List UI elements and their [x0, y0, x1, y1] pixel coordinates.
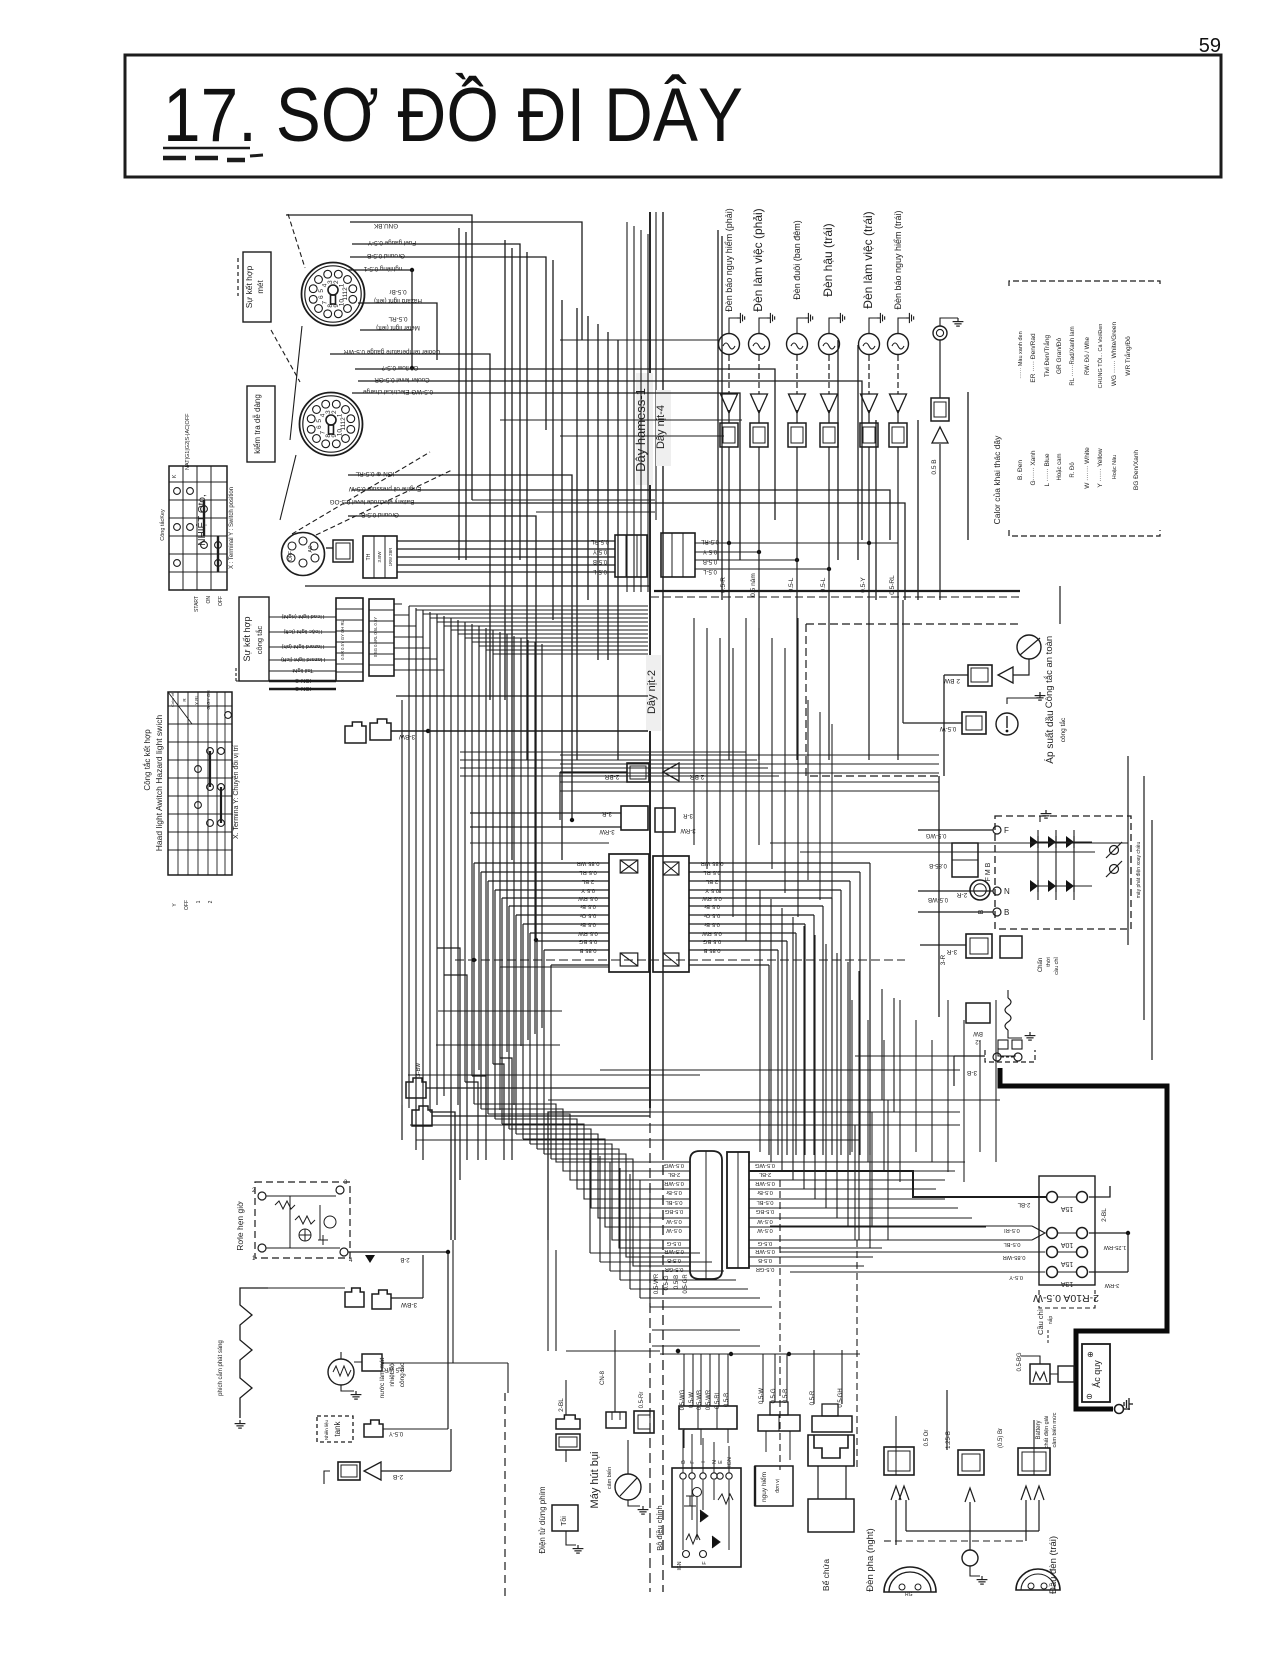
harness label Day harness-1: [633, 373, 653, 485]
svg-text:1.25-RW: 1.25-RW: [1103, 1244, 1126, 1250]
svg-text:công tắc: công tắc: [397, 1362, 406, 1387]
vertical drop wires top bundle: [459, 228, 968, 860]
lower junction block left: [664, 1151, 722, 1279]
ignition switch table NHIET Oto: [159, 413, 235, 612]
svg-text:Head light (right): Head light (right): [282, 613, 325, 619]
svg-text:mét: mét: [256, 280, 265, 294]
svg-text:0.5-GR: 0.5-GR: [683, 1274, 689, 1294]
wire labels before harness conn: [590, 538, 609, 574]
svg-text:Tail light: Tail light: [292, 667, 313, 673]
svg-text:3-RW: 3-RW: [680, 827, 696, 833]
svg-text:Tivi Đen/Trắng: Tivi Đen/Trắng: [1042, 335, 1051, 378]
svg-text:······ Màu xanh đen: ······ Màu xanh đen: [1018, 331, 1024, 378]
extra top bundle verticals: [627, 222, 648, 592]
svg-text:ER ····· Đen/Rad: ER ····· Đen/Rad: [1030, 333, 1037, 383]
svg-text:R. Đỏ: R. Đỏ: [1069, 462, 1076, 478]
title block frame: [125, 55, 1221, 177]
svg-text:6: 6: [316, 425, 323, 429]
svg-text:GR Gran/Đỏ: GR Gran/Đỏ: [1055, 338, 1063, 375]
2-B connector arrow: [324, 1462, 451, 1484]
svg-text:3-Bw: 3-Bw: [416, 1062, 422, 1076]
svg-text:Chấn: Chấn: [1038, 958, 1044, 972]
svg-text:thời: thời: [1046, 957, 1052, 966]
svg-text:Hoặc light (left): Hoặc light (left): [283, 628, 322, 634]
bundle elbows: [402, 948, 512, 1240]
svg-text:0.5-Br: 0.5-Br: [757, 1189, 773, 1195]
battery connector dashed: [954, 1050, 1035, 1086]
gauge wire labels: [330, 222, 441, 518]
svg-text:nắp: nắp: [1047, 1316, 1054, 1325]
svg-text:E: E: [718, 1460, 724, 1464]
svg-text:Bể chứa: Bể chứa: [821, 1559, 831, 1591]
lamp node 7: [931, 318, 963, 600]
svg-text:CHUNG TÔI... Cá Voi/Đen: CHUNG TÔI... Cá Voi/Đen: [1097, 324, 1104, 389]
svg-text:0.5-G: 0.5-G: [666, 1240, 681, 1246]
svg-text:1: 1: [196, 900, 202, 903]
wire oil flow: [355, 369, 775, 520]
svg-text:0.5-G: 0.5-G: [664, 1275, 670, 1290]
svg-text:2: 2: [208, 900, 214, 903]
svg-text:0.5 Or: 0.5 Or: [924, 1430, 930, 1447]
svg-text:0.5-Y: 0.5-Y: [703, 548, 717, 554]
combo switch connector table A: [336, 598, 363, 681]
svg-text:15A: 15A: [1060, 1205, 1073, 1212]
headlight arrows: [891, 1486, 1044, 1502]
svg-text:F: F: [1004, 826, 1009, 835]
wire harness separator 2b: [655, 212, 657, 520]
svg-text:X. Termina Y: Chuyển đổi vị tr: X. Termina Y: Chuyển đổi vị trí: [232, 745, 240, 839]
svg-text:1RW 2BR: 1RW 2BR: [388, 548, 393, 567]
cascade wires right of junction block: [689, 863, 870, 1155]
svg-text:Công tắc kết hợp: Công tắc kết hợp: [143, 729, 152, 791]
svg-text:0.5-BL: 0.5-BL: [665, 1199, 683, 1205]
svg-text:Calor của khai thác dây: Calor của khai thác dây: [992, 435, 1002, 525]
svg-text:N: N: [1004, 887, 1010, 896]
svg-text:0.5-B: 0.5-B: [674, 1275, 680, 1289]
svg-text:17. SƠ ĐỒ ĐI DÂY: 17. SƠ ĐỒ ĐI DÂY: [163, 73, 743, 158]
svg-text:RW. Đỏ / Whe: RW. Đỏ / Whe: [1084, 336, 1091, 375]
hazard unit box: [755, 1466, 793, 1506]
2-BL connector stack: [556, 1380, 580, 1462]
svg-text:Y RL: Y RL: [194, 695, 199, 705]
svg-text:Đèn đuôi (ban đêm): Đèn đuôi (ban đêm): [792, 220, 802, 300]
svg-text:Đầu đèn (trái): Đầu đèn (trái): [1048, 1536, 1059, 1594]
svg-text:1.25-B: 1.25-B: [946, 1431, 952, 1449]
central harness wire bundle: [402, 606, 542, 1112]
right horizontals upper: [560, 755, 939, 791]
svg-text:0.5G 0.5RL 0.5L 0.5Y: 0.5G 0.5RL 0.5L 0.5Y: [373, 617, 378, 657]
svg-text:0.5-WR: 0.5-WR: [755, 1180, 775, 1186]
bottom small boxes: [0, 0, 1, 1]
svg-text:BW: BW: [973, 1030, 983, 1036]
wire colour legend: [992, 281, 1160, 536]
wire nghieng: [348, 268, 414, 330]
plug connectors 3-Bw mid: [406, 1062, 650, 1126]
svg-text:0.5-WG: 0.5-WG: [755, 1162, 775, 1168]
svg-text:Sự kết hợp: Sự kết hợp: [242, 617, 252, 662]
svg-text:Đèn báo nguy hiểm (phải): Đèn báo nguy hiểm (phải): [724, 208, 734, 312]
svg-text:0.5-B: 0.5-B: [593, 558, 607, 564]
svg-text:2: 2: [331, 410, 338, 414]
combo switch row labels: [269, 613, 336, 691]
svg-text:0.5-BG: 0.5-BG: [664, 1208, 683, 1214]
svg-text:0.5-WG: 0.5-WG: [925, 832, 946, 838]
svg-text:Haad light Awitch Hazard light: Haad light Awitch Hazard light swich: [154, 715, 164, 852]
svg-text:WR Trắng/Đỏ: WR Trắng/Đỏ: [1123, 336, 1132, 376]
svg-text:1: 1: [339, 283, 346, 287]
harness label Day nit-4: [655, 390, 671, 466]
svg-text:Điện tử dừng phím: Điện tử dừng phím: [538, 1486, 547, 1554]
svg-text:Ắc quy: Ắc quy: [1092, 1360, 1102, 1388]
right vertical wires: [903, 586, 1152, 1060]
glow plug zigzag: [217, 1288, 268, 1428]
junction block bottom wire: [500, 967, 609, 1110]
svg-text:2: 2: [333, 280, 340, 284]
svg-text:0.5 B: 0.5 B: [931, 459, 938, 474]
svg-text:2-BL: 2-BL: [1101, 1208, 1108, 1222]
svg-text:2-B: 2-B: [393, 1473, 403, 1480]
tank box: [317, 1416, 353, 1442]
wire harness separator 2: [662, 212, 664, 1592]
svg-text:3-B: 3-B: [967, 1069, 977, 1076]
label box Su ket hop met: [238, 252, 271, 322]
svg-text:OFF: OFF: [184, 900, 190, 910]
svg-text:BG Đen/Xanh: BG Đen/Xanh: [1133, 450, 1140, 490]
svg-text:0.5-BG: 0.5-BG: [755, 1208, 774, 1214]
svg-text:0.5-Rl: 0.5-Rl: [1004, 1227, 1019, 1233]
left bottom vertical wires: [448, 1240, 508, 1600]
svg-text:Rơle hẹn giờ: Rơle hẹn giờ: [235, 1201, 245, 1251]
svg-text:3: 3: [327, 280, 334, 284]
svg-text:12: 12: [342, 287, 349, 295]
svg-text:0.5-L: 0.5-L: [593, 568, 607, 574]
svg-text:2-BL: 2-BL: [667, 1171, 680, 1177]
wire hazard right: [358, 303, 437, 360]
svg-text:2 BW: 2 BW: [943, 677, 960, 684]
svg-text:12: 12: [340, 417, 347, 425]
svg-text:Color of: Color of: [170, 692, 175, 707]
headlight labels: [865, 1528, 1059, 1594]
svg-text:phích cắm phát sáng: phích cắm phát sáng: [217, 1340, 224, 1396]
leader lines to meter coupler: [271, 214, 305, 520]
svg-text:3-R: 3-R: [940, 954, 947, 965]
wire engine oil pressure: [352, 490, 890, 540]
alternator assembly: [985, 810, 1142, 929]
wire labels right of harness conn: [700, 538, 719, 574]
svg-text:0.5-GR: 0.5-GR: [756, 1266, 775, 1272]
timer relay: [252, 1180, 353, 1264]
svg-text:0.5-WR: 0.5-WR: [664, 1180, 684, 1186]
labels under lower block: [654, 1273, 689, 1294]
wire battery electrode: [345, 503, 905, 600]
battery: [1082, 1344, 1110, 1402]
svg-text:0.5-R: 0.5-R: [810, 1390, 816, 1405]
svg-text:Y ······ Yellow: Y ······ Yellow: [1097, 448, 1104, 488]
svg-text:0.5-WR: 0.5-WR: [755, 1248, 775, 1254]
svg-text:0.5-GH: 0.5-GH: [838, 1388, 844, 1407]
wire from combo to harness: [396, 695, 648, 697]
svg-text:0.5-Y: 0.5-Y: [593, 548, 607, 554]
headlight wires: [884, 1390, 1039, 1550]
svg-text:Nhiên liệu: Nhiên liệu: [324, 1419, 329, 1440]
svg-text:X : Terminal Y : Switch posi: X : Terminal Y : Switch position: [229, 487, 235, 569]
svg-text:0.5-W: 0.5-W: [666, 1227, 682, 1233]
lower right horizontals: [600, 1056, 1000, 1240]
svg-text:cảm biến mức: cảm biến mức: [1052, 1412, 1058, 1447]
plug pair 3-BW bottom: [268, 1255, 423, 1309]
svg-text:Cầu chì: Cầu chì: [1036, 1309, 1045, 1335]
svg-text:nguy hiểm: nguy hiểm: [760, 1472, 768, 1502]
headlight connector 2: [958, 1450, 984, 1475]
3-R connector pair lower: [920, 934, 1022, 965]
wires ignition to harness: [397, 541, 615, 572]
bottom connector row A: [679, 1354, 737, 1448]
svg-text:Hoặc Nâu: Hoặc Nâu: [1112, 455, 1118, 479]
svg-text:Đèn hậu (trái): Đèn hậu (trái): [821, 223, 835, 296]
cascade below lower block: [566, 1150, 772, 1353]
svg-text:IGN: IGN: [727, 1457, 733, 1467]
lower junction block right: [727, 1152, 775, 1272]
mid-right mesh wires: [470, 843, 894, 1351]
svg-text:kiểm tra dễ dàng: kiểm tra dễ dàng: [253, 394, 262, 454]
svg-text:⊕: ⊕: [1087, 1350, 1094, 1359]
svg-text:0.5-G: 0.5-G: [771, 1388, 777, 1403]
svg-text:Dây nịt-4: Dây nịt-4: [655, 405, 667, 449]
svg-text:0.5-BG: 0.5-BG: [1017, 1352, 1023, 1371]
svg-text:3-BW: 3-BW: [400, 1301, 417, 1308]
ignition switch coupler: [282, 533, 325, 576]
page number 59: [1199, 35, 1221, 57]
reservoir: [808, 1435, 854, 1591]
svg-text:F M B: F M B: [985, 862, 992, 881]
svg-text:3.BW: 3.BW: [377, 551, 382, 563]
coolant temp switch: [328, 1352, 406, 1399]
svg-text:công tắc: công tắc: [255, 626, 264, 655]
svg-text:0.5-WB: 0.5-WB: [697, 1390, 703, 1410]
svg-text:3-RW: 3-RW: [599, 828, 615, 834]
bottom connector row B: [758, 1354, 800, 1460]
svg-text:IGN: IGN: [677, 1561, 683, 1570]
battery ground thick: [1076, 1352, 1133, 1414]
headlight connector 3: [1018, 1448, 1050, 1475]
svg-text:WG ······ White/Green: WG ······ White/Green: [1111, 321, 1118, 386]
lamp horizontal bus: [305, 586, 1020, 776]
wire fuel gauge: [352, 244, 520, 560]
ignition leader dashes: [292, 452, 452, 535]
relay output wire: [348, 1250, 450, 1263]
connector 2-BR: [560, 763, 704, 820]
svg-text:0.5-Y: 0.5-Y: [1009, 1274, 1023, 1280]
second bundle to lower block: [474, 1104, 690, 1266]
svg-text:0.5-W: 0.5-W: [940, 725, 957, 732]
wire cooler level: [358, 381, 862, 540]
svg-text:13A: 13A: [1060, 1280, 1073, 1287]
svg-text:2-BL: 2-BL: [1017, 1201, 1030, 1207]
svg-text:tank: tank: [333, 1420, 342, 1436]
svg-text:Ground 0.5-B: Ground 0.5-B: [361, 511, 399, 518]
Toi winch box: [538, 1462, 583, 1554]
fuse link: [966, 957, 1060, 1056]
svg-text:0.5-Y: 0.5-Y: [389, 1430, 403, 1436]
headlight centre node: [962, 1550, 987, 1584]
safety switch dashed box: [806, 624, 1020, 776]
svg-text:đơn vị: đơn vị: [775, 1479, 781, 1493]
svg-text:⊖: ⊖: [1086, 1392, 1093, 1401]
fuse box: [1039, 1176, 1095, 1287]
svg-text:nghiêng 0.5-1: nghiêng 0.5-1: [363, 265, 402, 272]
wire separator elbow: [548, 1112, 650, 1240]
harness connector right of separator: [661, 533, 695, 577]
svg-text:B: B: [1004, 908, 1009, 917]
svg-text:Ground 0.5-B: Ground 0.5-B: [367, 252, 405, 259]
bundle top taps: [409, 606, 648, 654]
connector 3-R pair: [470, 806, 696, 834]
safety switch: [943, 635, 1055, 776]
wire IGN: [348, 475, 574, 822]
svg-text:0.5-G: 0.5-G: [757, 1240, 772, 1246]
fuel sender connector: [364, 1420, 448, 1437]
svg-text:Engine oil pressure 0.5-W: Engine oil pressure 0.5-W: [349, 485, 422, 492]
wire meter light: [360, 330, 414, 370]
svg-text:Hazard light (ph): Hazard light (ph): [282, 643, 325, 649]
svg-text:3-R: 3-R: [683, 812, 693, 818]
svg-text:3-RW: 3-RW: [1104, 1282, 1119, 1288]
svg-text:NAT|G1|G2|S-|AC|OFF: NAT|G1|G2|S-|AC|OFF: [185, 413, 191, 470]
svg-text:ON: ON: [206, 596, 212, 604]
battery feed thick wire: [1000, 1068, 1167, 1352]
wires out lower block right: [749, 1162, 965, 1266]
ignition connector small: [326, 540, 353, 562]
svg-text:Tồi: Tồi: [559, 1516, 568, 1526]
svg-text:cảm biến: cảm biến: [607, 1467, 613, 1489]
svg-text:Fuel gauge 0.5-Y: Fuel gauge 0.5-Y: [367, 239, 416, 246]
svg-text:Đèn pha (nght): Đèn pha (nght): [865, 1528, 876, 1591]
svg-text:G······ Xanh: G······ Xanh: [1030, 450, 1037, 485]
timer relay label: [235, 1201, 245, 1251]
svg-text:NHIỆT Oto,: NHIỆT Oto,: [195, 494, 208, 546]
temp switch connector: [354, 1354, 508, 1372]
fuse wires: [749, 1171, 1130, 1288]
0.5-Rr connector: [634, 1392, 654, 1433]
fuse caption: [1036, 1309, 1054, 1345]
B terminal connector: [956, 880, 990, 914]
fuse label 2R10A: [1033, 1290, 1099, 1308]
svg-text:0.5R 0.5Y GY OH RL: 0.5R 0.5Y GY OH RL: [340, 620, 345, 660]
svg-text:0.5-W: 0.5-W: [759, 1388, 765, 1404]
voltage regulator: [655, 1444, 741, 1570]
svg-text:Cooler level 0.5-GR: Cooler level 0.5-GR: [374, 376, 430, 383]
svg-text:Đèn làm việc (trái): Đèn làm việc (trái): [861, 211, 875, 308]
svg-text:Bộ điều chỉnh: Bộ điều chỉnh: [655, 1505, 664, 1550]
svg-text:0.85-B: 0.85-B: [929, 862, 947, 868]
svg-text:Sự kết hợp: Sự kết hợp: [244, 266, 254, 309]
svg-text:0.5-RL: 0.5-RL: [388, 315, 407, 322]
svg-text:CN-8: CN-8: [600, 1370, 606, 1385]
regulator wires up: [683, 1430, 729, 1473]
right verticals upper: [694, 618, 832, 941]
svg-text:7: 7: [321, 300, 328, 304]
svg-text:0.5-RL: 0.5-RL: [715, 1390, 721, 1409]
svg-text:AC: AC: [308, 545, 314, 552]
wire electrical charge: [352, 393, 740, 560]
svg-text:2-B: 2-B: [400, 1256, 409, 1262]
svg-text:0.5-WG Electrical charge: 0.5-WG Electrical charge: [363, 388, 433, 395]
svg-text:0.5-BL: 0.5-BL: [756, 1199, 774, 1205]
alternator wires: [918, 600, 993, 912]
long mid horizontal wires: [408, 1056, 1000, 1470]
svg-text:0.5-WB: 0.5-WB: [928, 896, 948, 902]
svg-text:công tắc: công tắc: [1058, 717, 1067, 742]
svg-text:0.5-W: 0.5-W: [666, 1218, 682, 1224]
svg-text:Công tắc an toàn: Công tắc an toàn: [1044, 636, 1055, 708]
svg-text:6: 6: [318, 295, 325, 299]
label box Su ket hop cong tac: [236, 597, 269, 681]
wire harness separator 1: [649, 212, 651, 1592]
svg-text:G GY OH: G GY OH: [206, 690, 211, 709]
svg-text:3-BW: 3-BW: [398, 733, 415, 740]
svg-text:Hazard light (left): Hazard light (left): [281, 656, 325, 662]
wire ground2: [348, 516, 538, 942]
svg-text:B. Đen: B. Đen: [1017, 460, 1024, 480]
wire cooler temp gauge: [330, 354, 490, 700]
svg-text:3-R: 3-R: [946, 948, 957, 955]
svg-text:0.5-WG: 0.5-WG: [664, 1162, 684, 1168]
top right horizontal taps: [472, 340, 742, 512]
right area connecting wires: [689, 600, 1128, 881]
oil pressure switch: [903, 600, 1067, 764]
headlight connector 1: [884, 1447, 914, 1475]
right verticals lower: [852, 1000, 996, 1240]
svg-text:cầu chỉ: cầu chỉ: [1053, 957, 1060, 975]
svg-text:Battery: Battery: [1036, 1420, 1042, 1439]
svg-text:OFF: OFF: [218, 596, 224, 606]
svg-text:Áp suất dầu: Áp suất dầu: [1043, 710, 1056, 763]
svg-text:0.5-B: 0.5-B: [783, 1389, 789, 1403]
svg-text:TH: TH: [366, 553, 372, 560]
wire ground 0.5-B: [350, 257, 546, 430]
svg-text:L ······ Blue: L ······ Blue: [1044, 453, 1051, 486]
svg-text:0.5-Rr: 0.5-Rr: [639, 1392, 645, 1409]
svg-text:0.5 nâm: 0.5 nâm: [750, 573, 757, 597]
mid dash horizontals: [436, 958, 905, 1045]
harness label Day nit-2: [646, 655, 661, 731]
svg-text:Đèn làm việc (phải): Đèn làm việc (phải): [751, 208, 765, 311]
svg-text:(0.5) Br: (0.5) Br: [998, 1428, 1004, 1448]
svg-text:GNU.BK: GNU.BK: [373, 222, 398, 229]
svg-text:0.5-W: 0.5-W: [689, 1392, 695, 1408]
svg-text:1: 1: [337, 413, 344, 417]
staircase wires left of junction block: [474, 863, 609, 1159]
svg-text:B: B: [681, 1460, 687, 1464]
svg-text:Công tắcKey: Công tắcKey: [159, 509, 166, 541]
junction block left: [577, 854, 649, 972]
svg-text:59: 59: [1199, 35, 1221, 57]
title underline dashes: [163, 148, 263, 160]
svg-text:Máy hút bụi: Máy hút bụi: [589, 1452, 601, 1509]
tail lamp group: [719, 208, 914, 760]
svg-text:START: START: [194, 596, 200, 612]
svg-text:0.5-Br: 0.5-Br: [389, 288, 406, 295]
CN-8 connector: [600, 1330, 626, 1428]
svg-text:RG: RG: [905, 1592, 913, 1598]
svg-text:0.5-WR: 0.5-WR: [706, 1389, 712, 1410]
svg-text:0.5-WR: 0.5-WR: [654, 1273, 660, 1294]
svg-text:2-BL: 2-BL: [758, 1171, 771, 1177]
svg-text:W ······· White: W ······· White: [1084, 447, 1091, 489]
svg-text:Đèn báo nguy hiểm (trái): Đèn báo nguy hiểm (trái): [893, 210, 903, 309]
plug connector pair 3-BW: [345, 719, 648, 743]
svg-text:0.5-Br: 0.5-Br: [666, 1189, 682, 1195]
